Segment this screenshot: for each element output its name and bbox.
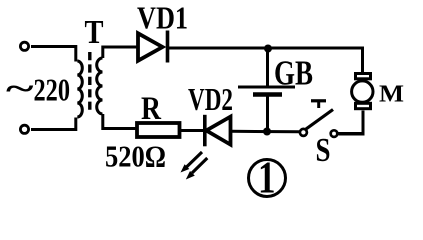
svg-text:~: ~ — [6, 70, 34, 106]
wire motor down to switch — [339, 111, 364, 135]
switch S left contact — [300, 129, 307, 136]
motor M bottom brush — [356, 103, 371, 108]
svg-text:R: R — [141, 91, 162, 127]
switch S lever — [306, 110, 333, 130]
wire from bottom terminal to transformer primary — [31, 118, 76, 130]
diode VD2 (LED) — [205, 115, 231, 147]
svg-text:M: M — [379, 80, 404, 107]
wire junction down to battery GB — [266, 49, 269, 87]
motor M top brush — [356, 74, 371, 79]
transformer T core — [88, 52, 91, 110]
wire switch to motor branch — [338, 132, 363, 135]
diode VD1 — [138, 31, 168, 63]
battery GB long plate — [238, 86, 295, 89]
svg-text:GB: GB — [274, 54, 313, 93]
battery GB short plate — [253, 92, 282, 97]
svg-text:220: 220 — [34, 72, 71, 108]
switch S right contact — [331, 130, 338, 137]
svg-text:VD2: VD2 — [188, 81, 233, 117]
svg-text:T: T — [85, 14, 104, 51]
transformer T secondary winding — [97, 58, 103, 114]
switch S actuator mark — [311, 101, 326, 108]
LED arrow 2 — [186, 158, 208, 180]
wire from top terminal to transformer primary — [31, 47, 76, 62]
motor M body — [352, 81, 373, 102]
wire battery to bottom junction — [266, 97, 269, 132]
wire secondary top lead to diode VD1 — [103, 47, 137, 58]
LED arrow 1 — [181, 152, 203, 173]
terminal top-left — [20, 42, 28, 50]
svg-text:VD1: VD1 — [137, 0, 188, 36]
wire secondary bottom lead to resistor — [103, 114, 137, 129]
wire top from VD1 to motor branch — [169, 48, 363, 73]
svg-text:S: S — [316, 132, 331, 169]
junction node top (GB tap) — [264, 45, 272, 53]
resistor R — [137, 123, 180, 137]
terminal bottom-left — [20, 125, 28, 133]
svg-text:520Ω: 520Ω — [105, 139, 166, 174]
figure number circle 1 — [249, 153, 286, 203]
transformer T primary winding — [77, 61, 82, 117]
svg-text:1: 1 — [258, 153, 276, 203]
junction node bottom (GB tap) — [263, 128, 271, 136]
wire resistor to VD2 — [180, 129, 204, 132]
wire VD2 to switch — [231, 130, 300, 134]
